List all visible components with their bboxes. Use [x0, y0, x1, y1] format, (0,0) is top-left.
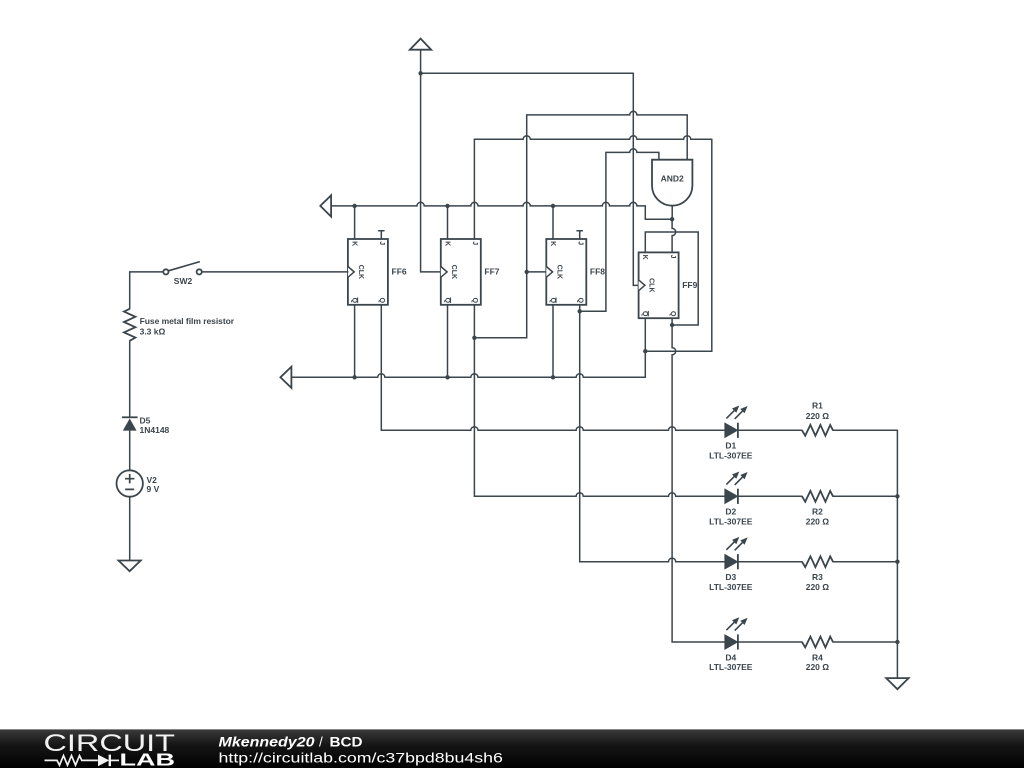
wire V2 to ground — [129, 497, 131, 561]
wire FF7 Q to row2 — [474, 305, 802, 497]
svg-text:CLK: CLK — [648, 278, 655, 292]
junction rail2 FF8 Qbar — [551, 375, 555, 379]
junction FF8 Q tap — [578, 309, 582, 313]
wire FF9 K loop from FF9 Q — [645, 232, 698, 325]
pin FF8 J stub — [577, 231, 582, 239]
svg-text:R4: R4 — [812, 652, 823, 662]
wire AND2 input B drop — [686, 115, 688, 160]
wire rail2 — [291, 374, 645, 378]
switch SW2 — [163, 262, 202, 286]
svg-text:LTL-307EE: LTL-307EE — [709, 450, 753, 460]
svg-text:J: J — [378, 241, 385, 245]
wire FF6 K up to rail1 — [354, 206, 356, 239]
junction right column row at 496.3 — [895, 494, 899, 498]
power flag VCC — [410, 39, 431, 50]
diode D5 1N4148 — [122, 416, 170, 435]
svg-text:J: J — [669, 255, 676, 259]
node arrow rail2 — [280, 367, 291, 388]
wire FF9 Qbar down to rail2 — [644, 318, 646, 377]
node arrow rail1 — [320, 195, 331, 216]
wire FF6 Qbar down — [354, 305, 356, 378]
resistor R1 220 ohm — [802, 401, 833, 436]
svg-text:Q: Q — [669, 311, 676, 317]
wire FF8 Q to row3 — [580, 305, 802, 562]
junction rail1 FF7 K — [445, 204, 449, 208]
wire FF7 J up to net — [473, 139, 475, 239]
CircuitLab logo — [44, 730, 176, 768]
wire FF9 Qbar branch to riser — [645, 350, 712, 352]
junction rail2 FF7 Qbar — [445, 375, 449, 379]
wire row1 resistor to right column — [833, 429, 897, 431]
svg-text:220 Ω: 220 Ω — [806, 582, 830, 592]
junction rail1 FF8 K — [551, 204, 555, 208]
wire FF8 K up to rail1 — [552, 206, 554, 239]
source V2 9V — [117, 470, 160, 496]
svg-text:CLK: CLK — [357, 265, 364, 279]
svg-text:LTL-307EE: LTL-307EE — [709, 516, 753, 526]
svg-text:Q: Q — [549, 298, 556, 304]
wire FF8 Q to AND2 input A — [580, 149, 659, 312]
junction FF9 Qbar tap — [643, 349, 647, 353]
wire into FF8 CLK — [527, 271, 547, 273]
wire right column — [896, 430, 898, 678]
wire FF7 Qbar down — [447, 305, 449, 378]
resistor R2 220 ohm — [802, 491, 833, 527]
svg-text:K: K — [549, 241, 556, 246]
wire fuse to D5 — [129, 341, 131, 418]
junction right column row at 561.7 — [895, 560, 899, 564]
svg-text:FF7: FF7 — [484, 267, 499, 277]
junction rail1 FF6 K — [352, 204, 356, 208]
svg-text:1N4148: 1N4148 — [140, 425, 170, 435]
wire FF8 CLK net horizontal — [527, 111, 688, 115]
resistor R3 220 ohm — [802, 556, 833, 592]
svg-text:D3: D3 — [725, 572, 736, 582]
svg-text:Q: Q — [471, 298, 478, 304]
LED D3 LTL-307EE — [709, 537, 753, 592]
flip-flop FF8 — [546, 239, 605, 305]
wire FF7 K up to rail1 — [447, 206, 449, 239]
svg-text:Q: Q — [577, 298, 584, 304]
op AND2 gate body — [652, 160, 692, 206]
junction power node — [418, 71, 422, 75]
svg-text:http://circuitlab.com/c37bpd8b: http://circuitlab.com/c37bpd8bu4sh6 — [219, 751, 503, 766]
wire power branch down to FF9 CLK — [633, 73, 638, 285]
junction FF9 Q tap — [670, 323, 674, 327]
flip-flop FF9 — [639, 252, 698, 318]
resistor fuse metal film 3.3k — [124, 309, 235, 341]
wire FF8 Qbar down — [552, 305, 554, 378]
svg-text:CLK: CLK — [450, 265, 457, 279]
bottom bar background — [0, 729, 1024, 768]
svg-text:220 Ω: 220 Ω — [806, 411, 830, 421]
svg-text:SW2: SW2 — [174, 276, 193, 286]
wire FF9 Q to row4 — [672, 318, 802, 642]
wire right riser x711 — [645, 139, 712, 351]
wire power down to FF7 CLK — [421, 73, 441, 272]
svg-text:3.3 kΩ: 3.3 kΩ — [140, 326, 166, 336]
svg-text:LTL-307EE: LTL-307EE — [709, 662, 753, 672]
wire FF8 CLK vertical — [474, 115, 526, 338]
svg-text:FF6: FF6 — [392, 267, 407, 277]
svg-text:D1: D1 — [725, 441, 736, 451]
flip-flop FF6 — [348, 239, 407, 305]
pin FF6 J stub — [379, 231, 384, 239]
wire row3 resistor to right column — [833, 561, 897, 563]
wire AND2 out to FF9 J (hops K wire) — [672, 219, 676, 252]
svg-text:K: K — [443, 241, 450, 246]
svg-text:Fuse metal film resistor: Fuse metal film resistor — [140, 316, 235, 326]
junction right column row at 642.0 — [895, 640, 899, 644]
svg-text:AND2: AND2 — [661, 173, 684, 183]
ground left — [119, 561, 141, 572]
svg-text:K: K — [641, 255, 648, 260]
wire SW2 to FF6 CLK — [202, 271, 348, 273]
svg-text:J: J — [471, 241, 478, 245]
wire FF6 Q to row1 — [381, 305, 802, 431]
svg-text:Q: Q — [351, 298, 358, 304]
LED D4 LTL-307EE — [709, 617, 753, 672]
wire power top horizontal — [421, 72, 634, 74]
ground right — [886, 678, 908, 689]
junction AND2 output node — [670, 217, 674, 221]
svg-text:Q: Q — [378, 298, 385, 304]
svg-text:Mkennedy20: Mkennedy20 — [219, 734, 316, 749]
svg-text:220 Ω: 220 Ω — [806, 516, 830, 526]
svg-text:Q: Q — [443, 298, 450, 304]
wire row4 resistor to right column — [833, 641, 897, 643]
svg-text:R2: R2 — [812, 507, 823, 517]
svg-text:9 V: 9 V — [147, 484, 160, 494]
svg-text:D2: D2 — [725, 507, 736, 517]
svg-text:220 Ω: 220 Ω — [806, 662, 830, 672]
svg-text:J: J — [577, 241, 584, 245]
wire power stub — [420, 50, 422, 74]
resistor R4 220 ohm — [802, 637, 833, 673]
LED D2 LTL-307EE — [709, 472, 753, 527]
wire rail1 — [331, 202, 672, 219]
junction rail2 FF6 Qbar — [352, 375, 356, 379]
wire row2 resistor to right column — [833, 495, 897, 497]
LED D1 LTL-307EE — [709, 406, 753, 461]
wire SW2 left down — [130, 272, 164, 309]
svg-text:LTL-307EE: LTL-307EE — [709, 582, 753, 592]
wire FF9 Qbar to FF7 J horizontal — [474, 136, 711, 140]
flip-flop FF7 — [441, 239, 500, 305]
svg-text:FF8: FF8 — [590, 267, 605, 277]
bar title Mkennedy20 / BCD — [219, 734, 363, 749]
junction FF7 Q tap — [472, 336, 476, 340]
junction FF8 CLK tap — [525, 270, 529, 274]
svg-text:CLK: CLK — [555, 265, 562, 279]
svg-text:/: / — [319, 734, 323, 749]
svg-text:BCD: BCD — [330, 734, 363, 749]
svg-text:R3: R3 — [812, 572, 823, 582]
svg-text:D4: D4 — [725, 652, 736, 662]
wire AND2 output — [671, 206, 673, 220]
wire D5 to V2 — [129, 431, 131, 471]
svg-text:LAB: LAB — [120, 749, 176, 768]
svg-text:R1: R1 — [812, 401, 823, 411]
svg-text:FF9: FF9 — [682, 280, 697, 290]
svg-text:Q: Q — [641, 311, 648, 317]
svg-text:K: K — [351, 241, 358, 246]
